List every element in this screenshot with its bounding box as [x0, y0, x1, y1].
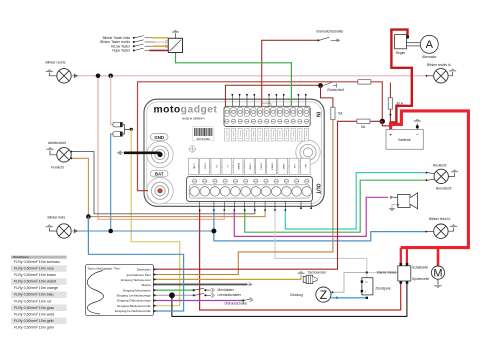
- node: blue T junction: [211, 229, 216, 234]
- wire: junction to battery plus: [382, 121, 390, 130]
- svg-text:LIGHT: LIGHT: [204, 163, 206, 170]
- svg-text:Masse: Masse: [142, 283, 151, 287]
- row terminal arrow stubs: [153, 268, 156, 313]
- svg-text:Fernlicht: Fernlicht: [51, 166, 64, 170]
- sensor: Tachosensor speed sensor: [297, 270, 327, 283]
- svg-text:FLRy 0,50mm² 10m rot: FLRy 0,50mm² 10m rot: [14, 299, 51, 303]
- middle function label boxes: [189, 158, 311, 174]
- svg-text:START: START: [282, 163, 285, 170]
- GND terminal: [147, 134, 173, 168]
- svg-text:FLRy 0,50mm² 10m rosa: FLRy 0,50mm² 10m rosa: [14, 267, 54, 271]
- IN connector block: [224, 106, 310, 126]
- regulator box Regler: [395, 35, 407, 56]
- svg-text:30 A: 30 A: [396, 102, 403, 106]
- node: diode output junction: [130, 128, 133, 131]
- IN terminal posts: [224, 108, 309, 117]
- svg-text:M: M: [433, 268, 442, 280]
- svg-text:Eingang Leerlaufanzeige: Eingang Leerlaufanzeige: [117, 294, 152, 298]
- wire: black relay return to indicator node: [172, 284, 407, 317]
- svg-text:HORN: HORN: [248, 163, 250, 169]
- wire: blue ignition trigger Z to coil: [331, 297, 367, 299]
- wire: 30A fuse branch to battery plus: [389, 83, 391, 130]
- switch: HiLow Taster: [133, 44, 153, 47]
- lamp: Blinker links (front left turn signal): [46, 216, 78, 239]
- wire: regulator charging loop (crimson): [391, 30, 412, 130]
- svg-text:geschaltetes Plus: geschaltetes Plus: [127, 273, 152, 277]
- m-button box: [168, 38, 182, 52]
- svg-text:FLRy 0,50mm² 10m schwarz: FLRy 0,50mm² 10m schwarz: [14, 260, 60, 264]
- starter motor M: [431, 266, 444, 288]
- svg-text:Öldruckschalter: Öldruckschalter: [225, 301, 249, 305]
- svg-text:Spulenseite: Spulenseite: [412, 277, 429, 281]
- barcode label: [193, 127, 214, 141]
- wire: white ignition output OUT#8 to coil and relay: [275, 210, 398, 277]
- switch: Zuendschloss ignition lock: [323, 82, 344, 92]
- svg-text:FLRy 0,50mm² 10m grün: FLRy 0,50mm² 10m grün: [14, 325, 54, 329]
- wire: Masse arrow: [247, 283, 252, 287]
- cable loop squiggle: [87, 271, 103, 315]
- svg-text:Eingang Öldruckanzeige: Eingang Öldruckanzeige: [117, 299, 151, 303]
- fuse F1 5A on ignition feed: [331, 107, 344, 120]
- wire: green m-button line to IN#10: [176, 53, 292, 107]
- lamp: Blinker rechts (front right turn signal): [46, 61, 78, 83]
- switch: Blinker Taster links: [133, 36, 152, 39]
- IN terminal screws: [225, 119, 309, 123]
- svg-text:Dauerplus: Dauerplus: [137, 268, 152, 272]
- node: junction pink/salmon: [96, 74, 101, 79]
- lamp: Abblendlicht/Fernlicht headlight: [46, 141, 72, 170]
- switch: Oeldruckschalter: [242, 298, 253, 302]
- ignition coil Zuendspule: [361, 278, 391, 295]
- svg-text:FLRy 0,50mm² 10m blau: FLRy 0,50mm² 10m blau: [14, 293, 54, 297]
- svg-text:Regler: Regler: [396, 51, 407, 55]
- wire: pink drop to diode D1: [111, 76, 113, 125]
- node: black indicator junction: [169, 292, 175, 298]
- wire: gray/black Abblendlicht Lo to OUT#6: [71, 152, 254, 214]
- wire: violet Oeldruckanzeige line: [153, 300, 243, 302]
- node: ignition switch junction: [318, 83, 323, 88]
- svg-text:OUT: OUT: [314, 184, 320, 195]
- svg-text:5A.: 5A.: [338, 112, 343, 116]
- lamp: Blinker rechts hinten (rear right): [426, 63, 457, 83]
- node: coil feed junction: [366, 271, 368, 273]
- wire: starter motor feed stub: [437, 248, 440, 267]
- svg-text:Eingang Tachosensor: Eingang Tachosensor: [121, 278, 151, 282]
- switch: Menuetaster button: [193, 288, 214, 292]
- svg-text:LO: LO: [215, 165, 217, 168]
- wire: salmon Turn-R return from OUT#3 down-left-up to pink line: [98, 76, 224, 220]
- svg-text:TURN L: TURN L: [260, 163, 262, 171]
- OUT terminal barrels: [190, 185, 312, 198]
- main ground cable arrow at GND terminal: [117, 150, 163, 157]
- lamp: Blinker links hinten (rear left): [426, 217, 458, 239]
- wire: green Brake light from OUT#5 to rear lamp: [245, 180, 427, 232]
- IN connector block top tab: [262, 103, 272, 107]
- svg-text:FLRy 0,50mm² 10m violett: FLRy 0,50mm² 10m violett: [14, 280, 56, 284]
- svg-text:motogadget: motogadget: [154, 105, 218, 116]
- wire: diode common tap: [123, 125, 131, 134]
- svg-text:Alternator: Alternator: [422, 55, 437, 59]
- svg-text:Rücklicht: Rücklicht: [433, 163, 446, 167]
- ignition source Z: [290, 287, 338, 302]
- svg-text:BRAKE: BRAKE: [237, 163, 240, 170]
- fuse F2 on BAT feed line: [358, 80, 371, 84]
- wire: Blinker rechts pink feed (front to rear lamp): [71, 74, 426, 317]
- wire: cyan Tail light from OUT#9 to rear lamp: [285, 173, 426, 229]
- svg-text:Abblendlicht: Abblendlicht: [48, 141, 66, 145]
- wire: ignition feed via 5A fuse to Tacho switched plus (tan below fuse): [321, 86, 333, 109]
- wire: main battery bus (bright red thick) to starter relay and motor: [391, 111, 469, 248]
- wire: Zuendschloss ignition line to IN#1: [225, 85, 318, 106]
- svg-text:Zündspule: Zündspule: [375, 286, 391, 290]
- svg-text:TURN R: TURN R: [271, 163, 273, 171]
- wire: Bremslichtschalter brake switch line from IN#6: [262, 40, 318, 106]
- wire: khaki Blinkerkontrolle from diodes to Tacho box: [131, 129, 180, 305]
- OUT side wire stubs: [200, 202, 312, 210]
- alternator: [407, 35, 439, 59]
- diode D2: [113, 132, 123, 137]
- switch: Bremslichtschalter: [317, 30, 345, 43]
- node: blue junction diode branch: [108, 229, 113, 234]
- svg-text:Blinker links: Blinker links: [48, 216, 66, 220]
- wire: relay contact stubs: [401, 248, 407, 264]
- ground above m-button: [175, 33, 177, 38]
- right mounting circle: [296, 140, 320, 164]
- svg-text:Menütaster: Menütaster: [218, 288, 235, 292]
- wire: ochre Tachosensor line: [153, 278, 302, 280]
- wire: blue Turn L from OUT#2 down and to rear left lamp: [214, 210, 427, 241]
- svg-text:Tachosensor: Tachosensor: [308, 270, 328, 274]
- OUT terminal screws: [193, 179, 309, 183]
- svg-text:Z: Z: [320, 288, 327, 302]
- node: regulator output dot: [406, 35, 409, 38]
- svg-text:Eingang Blinkerkontrolle: Eingang Blinkerkontrolle: [117, 304, 151, 308]
- svg-text:Eingang Fernlichtkontrolle: Eingang Fernlichtkontrolle: [115, 309, 151, 313]
- svg-text:FLRy 0,50mm² 10m grau: FLRy 0,50mm² 10m grau: [14, 306, 54, 310]
- wire: diode D2 to blue turn-left line: [111, 134, 113, 231]
- lamp: Ruecklicht/Bremslicht rear tail+brake light: [426, 163, 459, 190]
- IN side wire stubs: [232, 95, 305, 106]
- svg-text:Tacho Motogadget "Tiny": Tacho Motogadget "Tiny": [88, 267, 121, 271]
- svg-text:BAT: BAT: [155, 172, 164, 177]
- svg-text:FLRy 0,50mm² 10m gelb: FLRy 0,50mm² 10m gelb: [14, 319, 54, 323]
- svg-text:FLRy 0,50mm² 10m weiß: FLRy 0,50mm² 10m weiß: [14, 312, 55, 316]
- wire: tan Fernlicht Hi to OUT#7: [71, 158, 265, 216]
- wire: blue branch from Fernlicht node down to turn line: [87, 217, 89, 232]
- svg-text:Eingang Menütaster: Eingang Menütaster: [123, 288, 151, 292]
- svg-text:20741030: 20741030: [197, 137, 211, 141]
- svg-text:MADE IN GERMANY: MADE IN GERMANY: [182, 118, 205, 121]
- row labels: [115, 268, 151, 314]
- BAT terminal: [147, 170, 173, 204]
- svg-text:Bezeichnung: Bezeichnung: [14, 255, 30, 259]
- wire: Masse ground line thick: [153, 283, 248, 285]
- fuse F4 30A main fuse: [388, 98, 403, 109]
- svg-text:Leerlaufschalter: Leerlaufschalter: [218, 293, 242, 297]
- svg-text:Blinker rechts hi.: Blinker rechts hi.: [427, 63, 451, 67]
- battery: [386, 119, 423, 150]
- node: junction pink/diode branch: [108, 74, 113, 79]
- svg-text:Schaltseite: Schaltseite: [412, 265, 428, 269]
- svg-text:GND: GND: [154, 135, 164, 140]
- svg-text:IN: IN: [314, 112, 320, 117]
- svg-text:Bremslicht: Bremslicht: [436, 186, 451, 190]
- OUT connector block: [187, 177, 313, 202]
- svg-text:Bremslichtschalter: Bremslichtschalter: [317, 30, 345, 34]
- certification mark: [189, 146, 195, 152]
- svg-text:Batterie: Batterie: [398, 138, 410, 142]
- node: battery feed junction: [380, 119, 385, 124]
- motogadget logo: [154, 105, 218, 121]
- switch: Leerlaufschalter: [193, 293, 214, 297]
- starter relay: [377, 263, 430, 284]
- node: junction Fernlicht tan/blue: [86, 214, 91, 219]
- svg-text:Blinker rechts: Blinker rechts: [46, 61, 66, 65]
- svg-text:Zündschloß: Zündschloß: [327, 88, 344, 92]
- svg-text:5A.: 5A.: [361, 125, 366, 129]
- IN pin label row: [225, 128, 309, 141]
- svg-text:+: +: [389, 132, 392, 138]
- red BAT wire end dot: [157, 188, 162, 193]
- wire: magenta Horn from OUT#4 to horn: [234, 197, 388, 236]
- fuse F3 5A on Dauerplus line: [357, 119, 370, 129]
- svg-text:AUX: AUX: [304, 164, 307, 169]
- wire: Dauerplus via 5A fuse to Tacho box: [153, 121, 383, 269]
- svg-text:Starter Relais: Starter Relais: [377, 270, 397, 274]
- wire: gray Leerlaufanzeige line: [153, 294, 194, 296]
- wire: green Menuetaster line: [153, 289, 194, 291]
- wire: blue Fernlichtkontrolle: [88, 217, 183, 311]
- wire: gray link ignition Z to coil: [331, 273, 367, 293]
- svg-text:FLRy 0,50mm² 10m orange: FLRy 0,50mm² 10m orange: [14, 286, 58, 290]
- svg-text:−: −: [416, 132, 419, 138]
- wire: blue Turn L line front lamp to junction: [75, 230, 214, 232]
- switch: Blinker Taster rechts: [133, 40, 155, 43]
- horn: [388, 193, 417, 211]
- svg-text:FLRy 0,50mm² 10m braun: FLRy 0,50mm² 10m braun: [14, 273, 56, 277]
- svg-text:LOAD: LOAD: [192, 164, 195, 170]
- svg-text:IGN: IGN: [293, 165, 295, 169]
- diode D1: [113, 122, 123, 127]
- svg-text:A: A: [426, 39, 434, 51]
- svg-text:Blinker links hi.: Blinker links hi.: [429, 217, 451, 221]
- svg-text:Hupe Taster: Hupe Taster: [112, 49, 131, 53]
- wire: crimson starter control OUT#1 to relay: [200, 210, 401, 310]
- m-unit U1 outer body: [144, 99, 324, 206]
- wire: BAT feed line with fuse to battery junction: [138, 82, 383, 191]
- switch: Hupe Taster: [133, 48, 149, 51]
- svg-text:Zündung: Zündung: [290, 293, 303, 297]
